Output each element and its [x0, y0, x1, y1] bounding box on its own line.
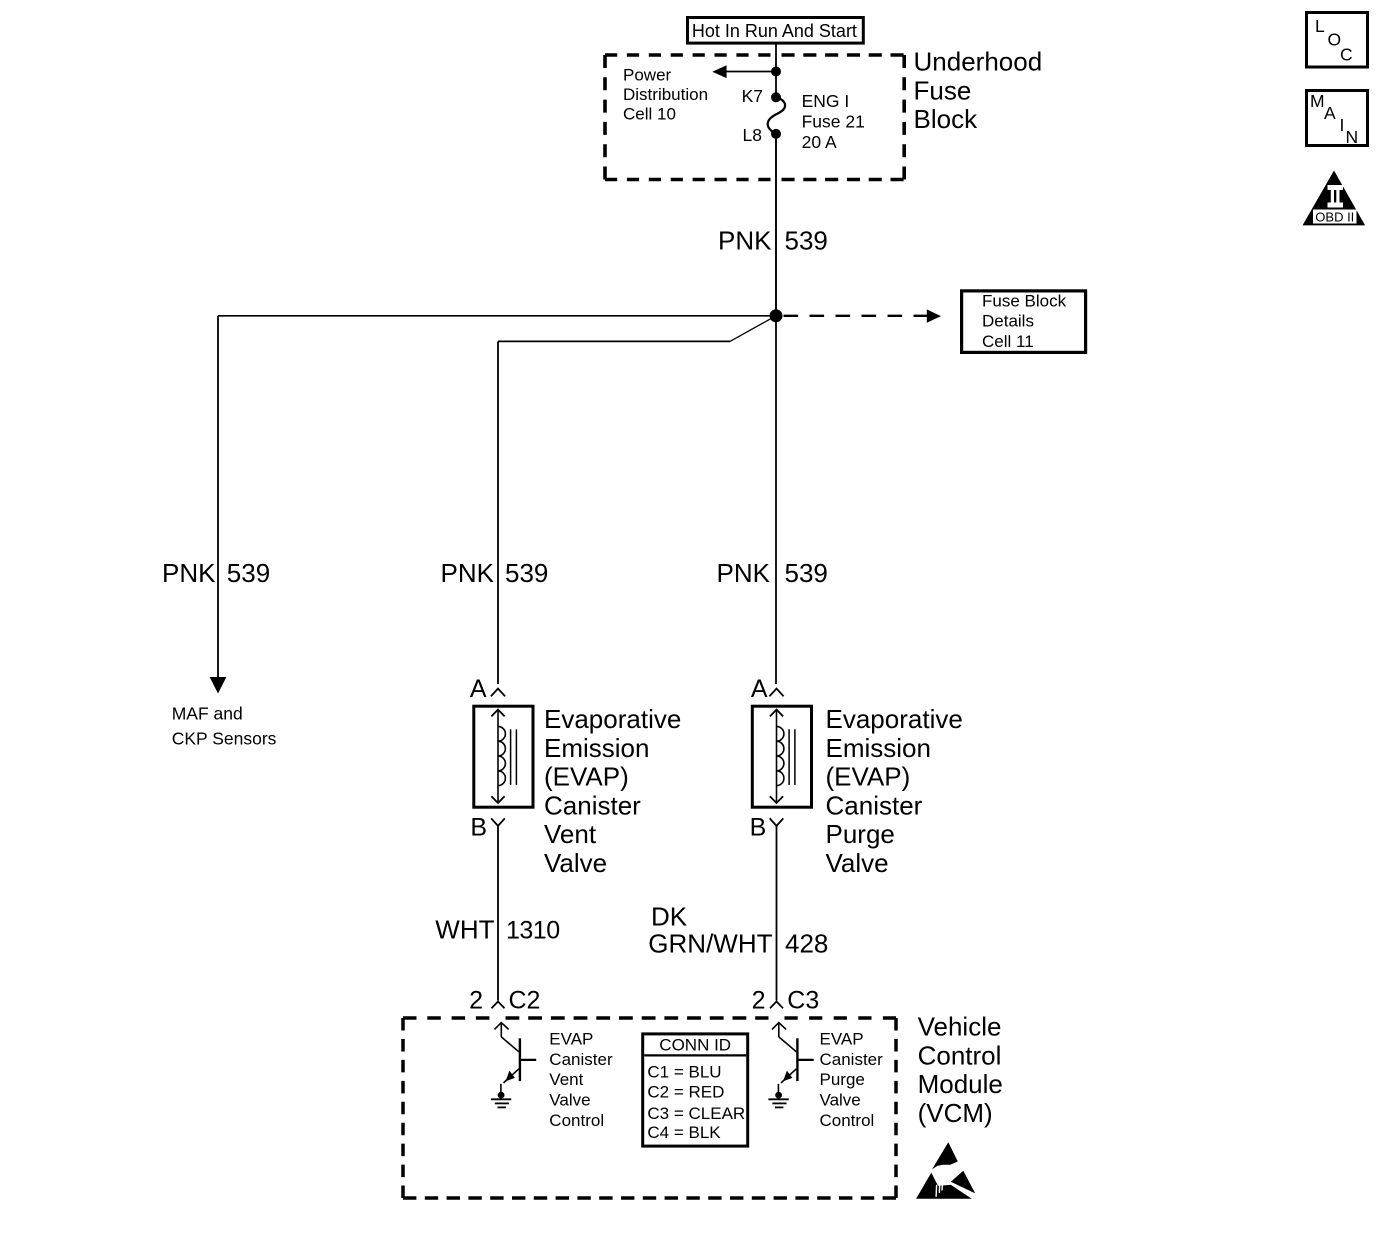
connector 2 C3: [752, 987, 820, 1015]
Vehicle Control Module dashed box: [403, 1018, 896, 1198]
label Evaporative Emission (EVAP) Canister Purge Valve: [826, 704, 963, 878]
svg-text:PNK: PNK: [162, 558, 216, 588]
wire middle branch (diagonal + horizontal): [498, 316, 776, 684]
svg-text:Valve: Valve: [544, 848, 607, 878]
svg-text:Valve: Valve: [826, 848, 889, 878]
svg-text:Cell 10: Cell 10: [623, 105, 676, 124]
arrow to Power Distribution: [712, 65, 776, 78]
ground (vent valve control): [491, 1084, 511, 1108]
svg-text:Valve: Valve: [549, 1091, 590, 1110]
ESD sensitive device symbol: [916, 1142, 975, 1199]
wire right branch down to purge valve: [775, 316, 777, 684]
label Underhood Fuse Block: [914, 47, 1043, 135]
svg-text:PNK: PNK: [717, 558, 771, 588]
svg-text:K7: K7: [742, 86, 763, 106]
svg-text:Evaporative: Evaporative: [544, 704, 681, 734]
ground (purge valve control): [768, 1084, 788, 1108]
svg-text:WHT: WHT: [435, 914, 494, 944]
junction at fuse input: [771, 67, 781, 77]
svg-text:Module: Module: [918, 1069, 1003, 1099]
svg-text:539: 539: [785, 558, 828, 588]
svg-text:C2: C2: [509, 987, 541, 1015]
label EVAP Canister Purge Valve Control: [820, 1030, 884, 1130]
svg-text:CKP Sensors: CKP Sensors: [172, 729, 277, 749]
svg-text:C: C: [1340, 45, 1353, 65]
svg-text:2: 2: [752, 987, 766, 1015]
svg-text:I: I: [1340, 115, 1345, 135]
svg-text:20 A: 20 A: [802, 132, 837, 152]
svg-text:EVAP: EVAP: [820, 1030, 864, 1049]
EVAP canister vent valve solenoid U1: [474, 706, 533, 807]
EVAP canister purge valve solenoid U2: [752, 706, 811, 807]
svg-text:Cell 11: Cell 11: [982, 332, 1034, 351]
label ENG I Fuse 21 20 A: [802, 91, 865, 152]
svg-text:2: 2: [469, 987, 483, 1015]
junction node: [770, 309, 783, 322]
svg-text:428: 428: [785, 929, 828, 959]
svg-text:Block: Block: [914, 104, 979, 134]
svg-text:1310: 1310: [506, 916, 560, 944]
connector B (vent valve): [470, 813, 504, 841]
svg-text:A: A: [751, 675, 768, 703]
svg-text:539: 539: [227, 558, 270, 588]
svg-text:A: A: [1324, 103, 1336, 123]
svg-text:(EVAP): (EVAP): [544, 762, 629, 792]
connector A (purge valve): [751, 675, 784, 703]
wire PNK 539 from fuse to junction: [775, 134, 777, 316]
svg-text:L: L: [1315, 16, 1325, 36]
svg-text:B: B: [750, 813, 767, 841]
svg-text:B: B: [470, 813, 487, 841]
fuse ENG I Fuse 21 20 A: [768, 92, 785, 139]
svg-text:C3 = CLEAR: C3 = CLEAR: [647, 1104, 745, 1123]
svg-text:Underhood: Underhood: [914, 47, 1043, 77]
label DK GRN/WHT 428: [648, 902, 828, 959]
label PNK 539 (left): [162, 558, 270, 588]
label Vehicle Control Module (VCM): [918, 1012, 1003, 1128]
svg-text:GRN/WHT: GRN/WHT: [648, 929, 772, 959]
svg-text:Control: Control: [549, 1111, 604, 1130]
svg-text:A: A: [470, 675, 487, 703]
connector 2 C2: [469, 987, 540, 1015]
svg-text:Canister: Canister: [544, 790, 641, 820]
svg-text:DK: DK: [651, 902, 688, 932]
wire horizontal to left branch: [218, 315, 776, 317]
svg-text:Fuse 21: Fuse 21: [802, 111, 865, 131]
Fuse Block Details Cell 11 box: [962, 291, 1086, 353]
svg-text:Canister: Canister: [549, 1050, 613, 1069]
transistor Q2 (purge valve control): [772, 1023, 814, 1083]
svg-text:ENG I: ENG I: [802, 91, 850, 111]
svg-text:N: N: [1346, 127, 1359, 147]
svg-text:CONN ID: CONN ID: [659, 1035, 731, 1054]
dashed arrow to Fuse Block Details: [784, 309, 942, 322]
svg-text:C2 = RED: C2 = RED: [647, 1083, 724, 1102]
svg-text:539: 539: [505, 558, 548, 588]
connector B (purge valve): [750, 813, 784, 841]
wire from Hot In Run box down to fuse: [775, 44, 777, 97]
label PNK 539 (middle): [441, 558, 549, 588]
MAIN reference box: [1307, 91, 1368, 148]
svg-text:Canister: Canister: [826, 790, 923, 820]
Underhood Fuse Block dashed box: [605, 55, 904, 180]
wire WHT 1310: [497, 826, 499, 1001]
svg-text:Evaporative: Evaporative: [826, 704, 963, 734]
svg-text:PNK: PNK: [718, 226, 772, 256]
svg-text:Control: Control: [820, 1111, 875, 1130]
svg-text:Details: Details: [982, 312, 1034, 331]
svg-text:Vent: Vent: [549, 1070, 583, 1089]
svg-text:Canister: Canister: [820, 1050, 884, 1069]
svg-text:(EVAP): (EVAP): [826, 762, 911, 792]
svg-text:Fuse Block: Fuse Block: [982, 291, 1067, 310]
svg-text:(VCM): (VCM): [918, 1098, 993, 1128]
svg-text:Power: Power: [623, 65, 672, 84]
CONN ID table: [643, 1034, 748, 1146]
OBD II symbol: [1303, 171, 1366, 226]
label WHT 1310: [435, 914, 559, 944]
label MAF and CKP Sensors: [172, 704, 277, 749]
svg-text:MAF and: MAF and: [172, 704, 243, 724]
svg-text:Valve: Valve: [820, 1091, 861, 1110]
svg-text:Vehicle: Vehicle: [918, 1012, 1002, 1042]
svg-text:OBD II: OBD II: [1315, 209, 1354, 224]
svg-text:Emission: Emission: [544, 733, 649, 763]
svg-text:PNK: PNK: [441, 558, 495, 588]
svg-text:Control: Control: [918, 1040, 1002, 1070]
svg-text:C3: C3: [787, 987, 819, 1015]
svg-text:539: 539: [785, 226, 828, 256]
svg-text:Fuse: Fuse: [914, 75, 972, 105]
svg-text:C1 = BLU: C1 = BLU: [647, 1062, 721, 1081]
wire DK GRN/WHT 428: [776, 826, 778, 1001]
label Evaporative Emission (EVAP) Canister Vent Valve: [544, 704, 681, 878]
label Power Distribution Cell 10: [623, 65, 708, 123]
svg-text:Distribution: Distribution: [623, 85, 708, 104]
svg-text:M: M: [1310, 91, 1325, 111]
svg-text:C4 = BLK: C4 = BLK: [647, 1123, 721, 1142]
svg-text:Emission: Emission: [826, 733, 931, 763]
connector A (vent valve): [470, 675, 505, 703]
svg-text:Purge: Purge: [826, 819, 895, 849]
svg-text:Purge: Purge: [820, 1070, 865, 1089]
svg-text:L8: L8: [743, 125, 762, 145]
LOC reference box: [1307, 13, 1368, 68]
wire left branch down to MAF arrow: [210, 316, 227, 694]
svg-text:EVAP: EVAP: [549, 1030, 593, 1049]
svg-text:Vent: Vent: [544, 819, 597, 849]
label PNK 539 (top): [718, 226, 828, 256]
label EVAP Canister Vent Valve Control: [549, 1030, 613, 1130]
transistor Q1 (vent valve control): [495, 1023, 537, 1083]
Hot In Run And Start box: [688, 18, 864, 44]
label PNK 539 (right): [717, 558, 828, 588]
svg-text:Hot In Run And Start: Hot In Run And Start: [692, 21, 857, 41]
